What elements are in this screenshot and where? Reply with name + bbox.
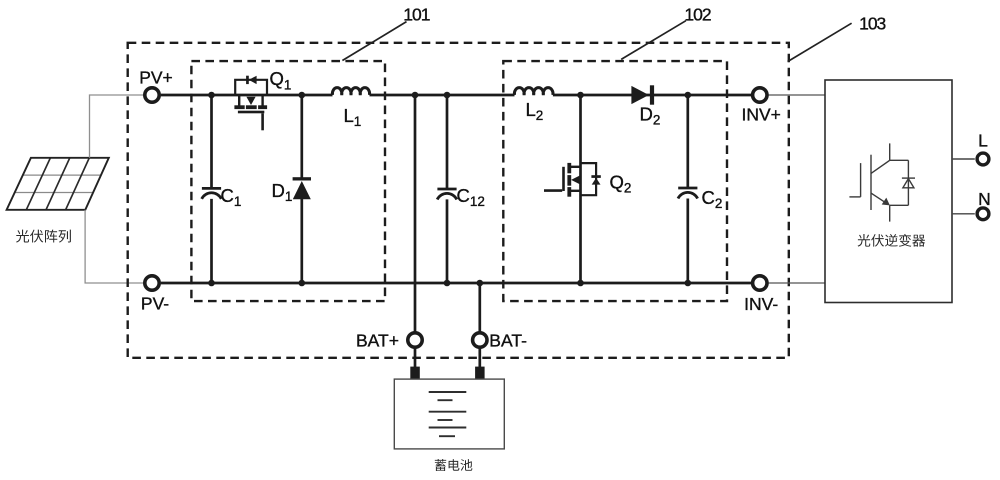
junction dot: D1 anode / bottom rail: [299, 280, 306, 287]
svg-text:INV+: INV+: [741, 105, 780, 125]
dashed boundary box 103 (whole converter unit): [128, 43, 789, 358]
junction dot: C12 / bottom rail: [444, 280, 451, 287]
svg-text:C12: C12: [457, 185, 485, 209]
terminal PV+: [145, 88, 159, 102]
svg-text:C2: C2: [702, 187, 723, 211]
capacitor C12: [437, 189, 457, 200]
svg-text:PV+: PV+: [139, 68, 173, 88]
terminal L: [977, 153, 989, 165]
terminal BAT+: [408, 333, 422, 347]
svg-text:N: N: [978, 189, 991, 209]
wire Q2 branch (drain to source through): [579, 95, 582, 283]
svg-text:BAT-: BAT-: [489, 330, 527, 350]
wire BAT- branch from bottom rail: [478, 283, 481, 332]
transistor Q1 (buck switch MOSFET with body diode): [234, 76, 267, 131]
wire C2 branch upper: [686, 95, 689, 188]
battery cell plates: [429, 392, 467, 436]
wire: PV array negative lead to PV- terminal: [85, 210, 144, 283]
svg-text:Q2: Q2: [610, 172, 632, 196]
junction dot: C12 / top rail: [444, 92, 451, 99]
IGBT symbol inside inverter: [849, 143, 915, 221]
terminal INV-: [753, 276, 767, 290]
svg-text:PV-: PV-: [141, 294, 169, 314]
capacitor C2: [678, 188, 698, 199]
terminal PV-: [145, 276, 159, 290]
svg-text:INV-: INV-: [744, 294, 778, 314]
capacitor C1: [202, 188, 222, 199]
svg-text:D1: D1: [272, 180, 293, 204]
junction dot: C2 / top rail: [685, 92, 692, 99]
leader line for label 102: [621, 21, 686, 60]
wire C12 branch upper: [446, 95, 449, 189]
dashed box 102 (boost circuit): [503, 61, 727, 301]
terminal N: [977, 208, 989, 220]
wire: top rail L1 to L2: [370, 94, 515, 97]
leader line for label 101: [342, 22, 406, 61]
battery negative post: [475, 367, 485, 380]
transistor Q2 (boost switch MOSFET with body diode): [544, 163, 601, 197]
wire BAT- terminal to battery post: [478, 348, 481, 367]
wire C12 branch lower: [446, 199, 449, 283]
svg-text:D2: D2: [640, 104, 661, 128]
dashed box 101 (buck circuit): [191, 61, 385, 301]
wire inverter to N terminal: [952, 213, 975, 215]
PV array panel (solar array symbol): [7, 158, 109, 210]
junction dot: BAT- tap / bottom rail: [477, 280, 484, 287]
wire C1 branch upper: [210, 95, 213, 188]
wire: PV array positive lead to PV+ terminal: [90, 95, 144, 158]
junction dot: BAT+ tap / top rail: [412, 92, 419, 99]
wire D1 branch upper: [300, 95, 303, 178]
leader line for label 103: [788, 23, 852, 61]
label "光伏阵列" (CJK text as paths): [16, 230, 71, 243]
wire: INV- to inverter box: [768, 282, 825, 284]
wire C1 branch lower: [210, 199, 213, 283]
svg-text:101: 101: [403, 4, 429, 24]
battery positive post: [410, 367, 420, 380]
diode D2 (boost diode, cathode bar right): [631, 85, 654, 104]
svg-text:BAT+: BAT+: [356, 330, 399, 350]
inductor L1: [332, 88, 369, 95]
wire C2 branch lower: [686, 199, 689, 284]
svg-text:L2: L2: [526, 99, 544, 123]
inductor L2: [514, 88, 553, 95]
label "光伏逆变器" (CJK text as paths): [858, 234, 926, 247]
wire BAT+ terminal to battery post: [414, 348, 417, 367]
junction dot: C1 / top rail: [208, 92, 215, 99]
wire D1 branch lower: [300, 199, 303, 283]
junction dot: Q2 drain / top rail: [577, 92, 584, 99]
wire: top rail L2 to INV+: [553, 94, 751, 97]
svg-text:C1: C1: [221, 185, 242, 209]
wire BAT+ branch (crosses bottom rail, no junction): [414, 95, 417, 332]
label "蓄电池" (CJK text as paths): [435, 459, 473, 471]
svg-text:Q1: Q1: [270, 68, 292, 92]
junction dot: D1 cathode / top rail: [299, 92, 306, 99]
junction dot: C2 / bottom rail: [685, 280, 692, 287]
wire inverter to L terminal: [952, 158, 975, 160]
svg-text:L1: L1: [344, 105, 362, 129]
terminal BAT-: [473, 333, 487, 347]
svg-text:103: 103: [859, 14, 885, 34]
terminal INV+: [753, 88, 767, 102]
junction dot: C1 / bottom rail: [208, 280, 215, 287]
wire: INV+ to inverter box: [768, 94, 825, 96]
wire: bottom negative rail PV- to INV-: [161, 282, 751, 285]
svg-text:102: 102: [684, 5, 710, 25]
junction dot: Q2 source / bottom rail: [577, 280, 584, 287]
svg-text:L: L: [978, 130, 988, 150]
diode D1 (freewheeling, cathode bar up): [293, 177, 311, 199]
inverter 光伏逆变器 box: [825, 80, 952, 303]
wire: top positive rail PV+ to L1: [161, 94, 333, 97]
battery 蓄电池 box: [394, 379, 504, 449]
